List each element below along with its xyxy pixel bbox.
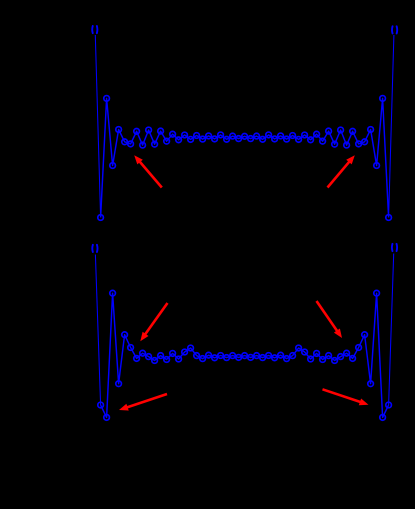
top-left clip mark () [92, 26, 97, 33]
wire top-left clipped spike [95, 35, 100, 218]
red arrow sub2 lower-left [125, 394, 168, 408]
top subplot markers [98, 215, 104, 221]
wire bottom polyline [101, 293, 389, 417]
bottom-right clip mark () [392, 244, 397, 251]
bottom subplot markers [98, 402, 104, 408]
wire top polyline [101, 98, 389, 217]
wire bottom-right clipped spike [389, 254, 394, 406]
top subplot: blue curve with circle markers [95, 35, 394, 220]
red arrow sub2 upper-left [144, 303, 168, 336]
top-right clip mark () [392, 26, 397, 33]
red arrow sub1 left [138, 160, 162, 188]
wire bottom-left clipped spike [95, 255, 100, 406]
red arrow sub1 right [328, 160, 352, 188]
red arrow sub2 lower-right [323, 389, 364, 403]
bottom subplot: blue curve with circle markers [95, 254, 393, 421]
wire top-right clipped spike [389, 35, 394, 218]
red arrow sub2 upper-right [317, 301, 339, 333]
bottom-left clip mark () [92, 245, 97, 252]
